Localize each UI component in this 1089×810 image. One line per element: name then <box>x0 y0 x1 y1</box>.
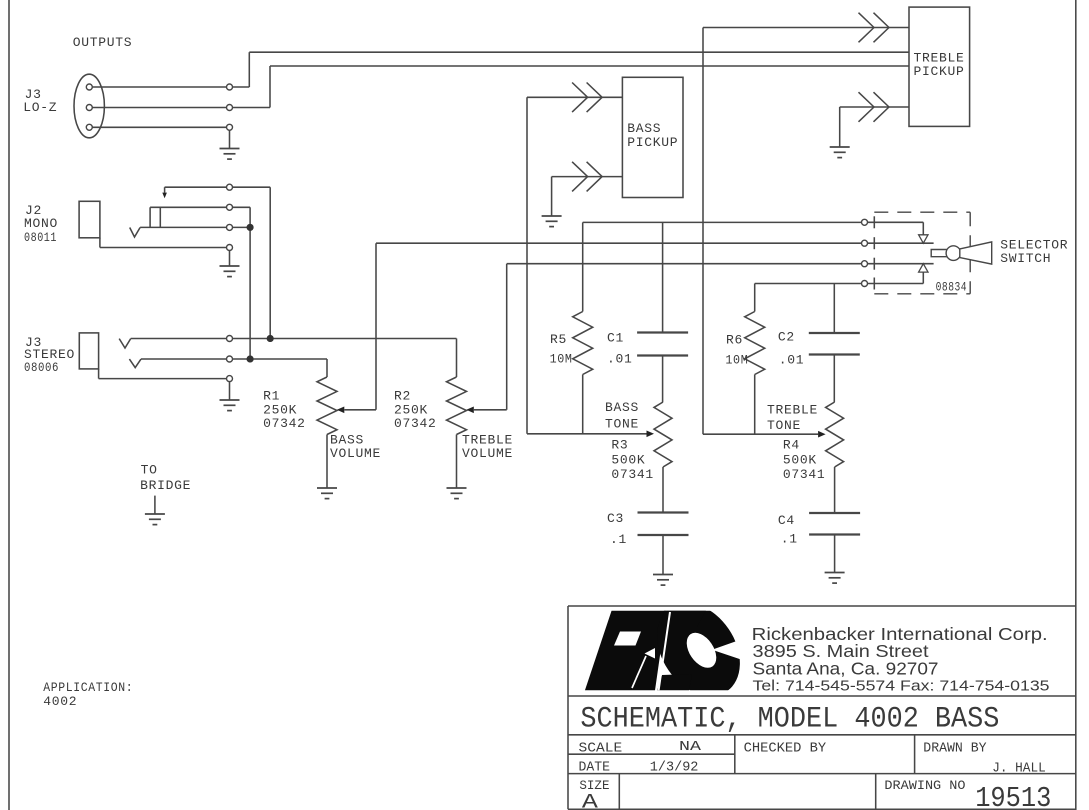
svg-text:C1: C1 <box>607 330 624 345</box>
svg-text:19513: 19513 <box>975 782 1051 810</box>
svg-text:SWITCH: SWITCH <box>1000 251 1051 266</box>
svg-text:PICKUP: PICKUP <box>627 135 678 150</box>
svg-text:08834: 08834 <box>936 279 968 294</box>
svg-text:R3: R3 <box>611 438 628 453</box>
svg-text:10M: 10M <box>550 352 573 367</box>
svg-text:BRIDGE: BRIDGE <box>140 478 191 493</box>
svg-text:APPLICATION:: APPLICATION: <box>43 680 133 695</box>
svg-text:4002: 4002 <box>43 694 77 709</box>
svg-text:Santa Ana, Ca. 92707: Santa Ana, Ca. 92707 <box>753 659 939 679</box>
svg-text:R4: R4 <box>783 438 800 453</box>
svg-text:07342: 07342 <box>263 416 306 431</box>
svg-text:C4: C4 <box>778 513 795 528</box>
svg-text:.1: .1 <box>781 531 798 546</box>
svg-text:PICKUP: PICKUP <box>914 64 965 79</box>
svg-text:07341: 07341 <box>783 467 826 482</box>
svg-text:1/3/92: 1/3/92 <box>650 760 699 776</box>
svg-text:TO: TO <box>141 463 158 478</box>
svg-text:VOLUME: VOLUME <box>330 446 381 461</box>
svg-text:TONE: TONE <box>605 417 639 432</box>
svg-text:TONE: TONE <box>767 418 801 433</box>
svg-text:SCHEMATIC, MODEL 4002 BASS: SCHEMATIC, MODEL 4002 BASS <box>580 703 999 737</box>
svg-text:.01: .01 <box>779 353 805 368</box>
svg-text:C2: C2 <box>778 329 795 344</box>
svg-text:A: A <box>582 792 598 810</box>
svg-text:R2: R2 <box>394 389 411 404</box>
svg-text:TREBLE: TREBLE <box>767 403 818 418</box>
svg-text:SCALE: SCALE <box>579 740 623 756</box>
svg-text:NA: NA <box>679 739 702 755</box>
svg-text:BASS: BASS <box>605 400 639 415</box>
svg-text:07341: 07341 <box>611 467 654 482</box>
svg-text:08011: 08011 <box>24 230 57 245</box>
svg-text:DATE: DATE <box>579 760 611 776</box>
svg-text:BASS: BASS <box>627 121 661 136</box>
svg-text:CHECKED BY: CHECKED BY <box>744 740 827 756</box>
svg-text:DRAWN BY: DRAWN BY <box>923 740 987 756</box>
svg-text:VOLUME: VOLUME <box>462 446 513 461</box>
svg-text:07342: 07342 <box>394 416 437 431</box>
svg-text:08006: 08006 <box>24 360 59 375</box>
svg-text:R5: R5 <box>550 332 567 347</box>
svg-text:10M: 10M <box>725 353 748 368</box>
svg-text:500K: 500K <box>611 452 645 467</box>
svg-text:LO-Z: LO-Z <box>23 100 57 115</box>
svg-text:DRAWING NO: DRAWING NO <box>884 778 965 793</box>
svg-text:OUTPUTS: OUTPUTS <box>73 35 133 50</box>
svg-text:.01: .01 <box>607 352 633 367</box>
svg-text:J. HALL: J. HALL <box>992 761 1045 777</box>
svg-text:R6: R6 <box>726 333 743 348</box>
svg-text:R1: R1 <box>263 389 280 404</box>
svg-text:500K: 500K <box>783 452 817 467</box>
svg-text:C3: C3 <box>607 511 624 526</box>
svg-text:.1: .1 <box>610 532 627 547</box>
svg-text:Tel: 714-545-5574 Fax: 714-75: Tel: 714-545-5574 Fax: 714-754-0135 <box>753 679 1050 695</box>
